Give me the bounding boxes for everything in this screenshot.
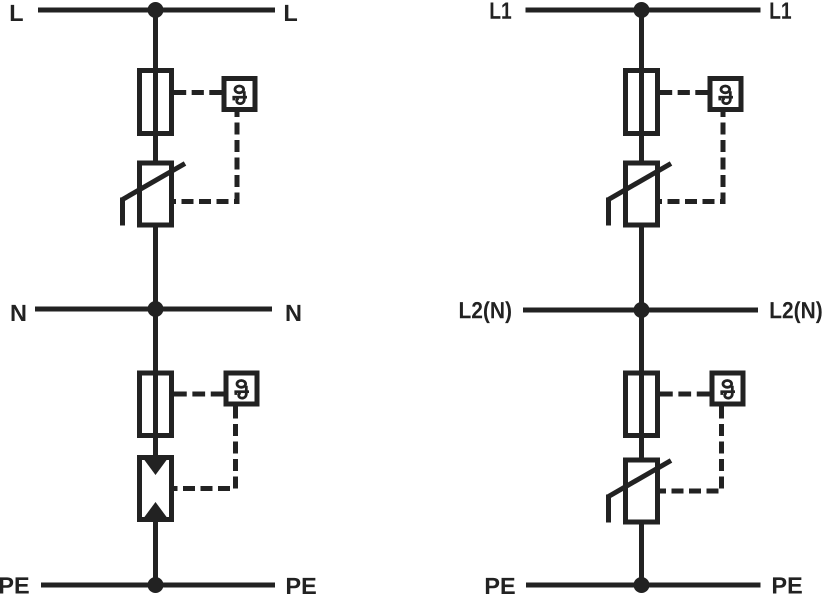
terminal label PE right outer (486, 578, 515, 594)
thermal monitor box T4 (712, 373, 743, 404)
fuse disconnector F1 (140, 71, 172, 134)
bus wire L phase line (38, 8, 275, 13)
varistor RV3 (609, 460, 672, 523)
terminal label L left (11, 5, 23, 21)
thermal monitor box T3 (710, 79, 741, 110)
junction node L junction (148, 2, 164, 18)
bus wire L1 phase line (526, 8, 761, 13)
fuse disconnector F3 (626, 71, 658, 134)
terminal label L right (285, 5, 297, 21)
wire left column vertical conductor (153, 10, 158, 585)
fuse disconnector F2 (140, 373, 172, 436)
dashed signal line F1 to T1 (174, 90, 222, 95)
dashed signal line T3 to varistor RV2 (660, 112, 723, 202)
bus wire PE line left (41, 583, 275, 588)
thermal monitor box T2 (226, 373, 257, 404)
varistor RV1 (123, 163, 186, 226)
dashed signal line F3 to T3 (660, 90, 708, 95)
dashed signal line T2 to spark gap (174, 407, 236, 489)
thermal monitor box T1 (224, 79, 255, 110)
dashed signal line T1 to varistor RV1 (174, 112, 237, 202)
terminal label L1 left (491, 3, 512, 19)
terminal label L1 right (770, 3, 791, 19)
bus wire PE line right (526, 583, 761, 588)
fuse disconnector F4 (626, 373, 658, 436)
dashed signal line T4 to varistor RV3 (660, 407, 722, 492)
terminal label PE right inner (773, 577, 802, 593)
gas discharge tube / spark gap SG1 (140, 458, 172, 520)
terminal label L2N left (460, 301, 511, 323)
bus wire N neutral line (35, 307, 272, 312)
terminal label N right (287, 305, 301, 321)
dashed signal line F4 to T4 (660, 392, 710, 397)
junction node L2(N) junction (634, 302, 650, 318)
terminal label PE left inner (287, 578, 316, 594)
terminal label N left (12, 305, 26, 321)
junction node PE junction left (148, 577, 164, 593)
terminal label L2N right (771, 301, 822, 323)
terminal label PE left outer (0, 577, 29, 593)
bus wire L2(N) line (523, 308, 758, 313)
junction node L1 junction (634, 2, 650, 18)
wire right column vertical conductor (639, 10, 644, 585)
junction node N junction (148, 301, 164, 317)
junction node PE junction right (634, 577, 650, 593)
varistor RV2 (609, 163, 672, 226)
dashed signal line F2 to T2 (174, 392, 224, 397)
